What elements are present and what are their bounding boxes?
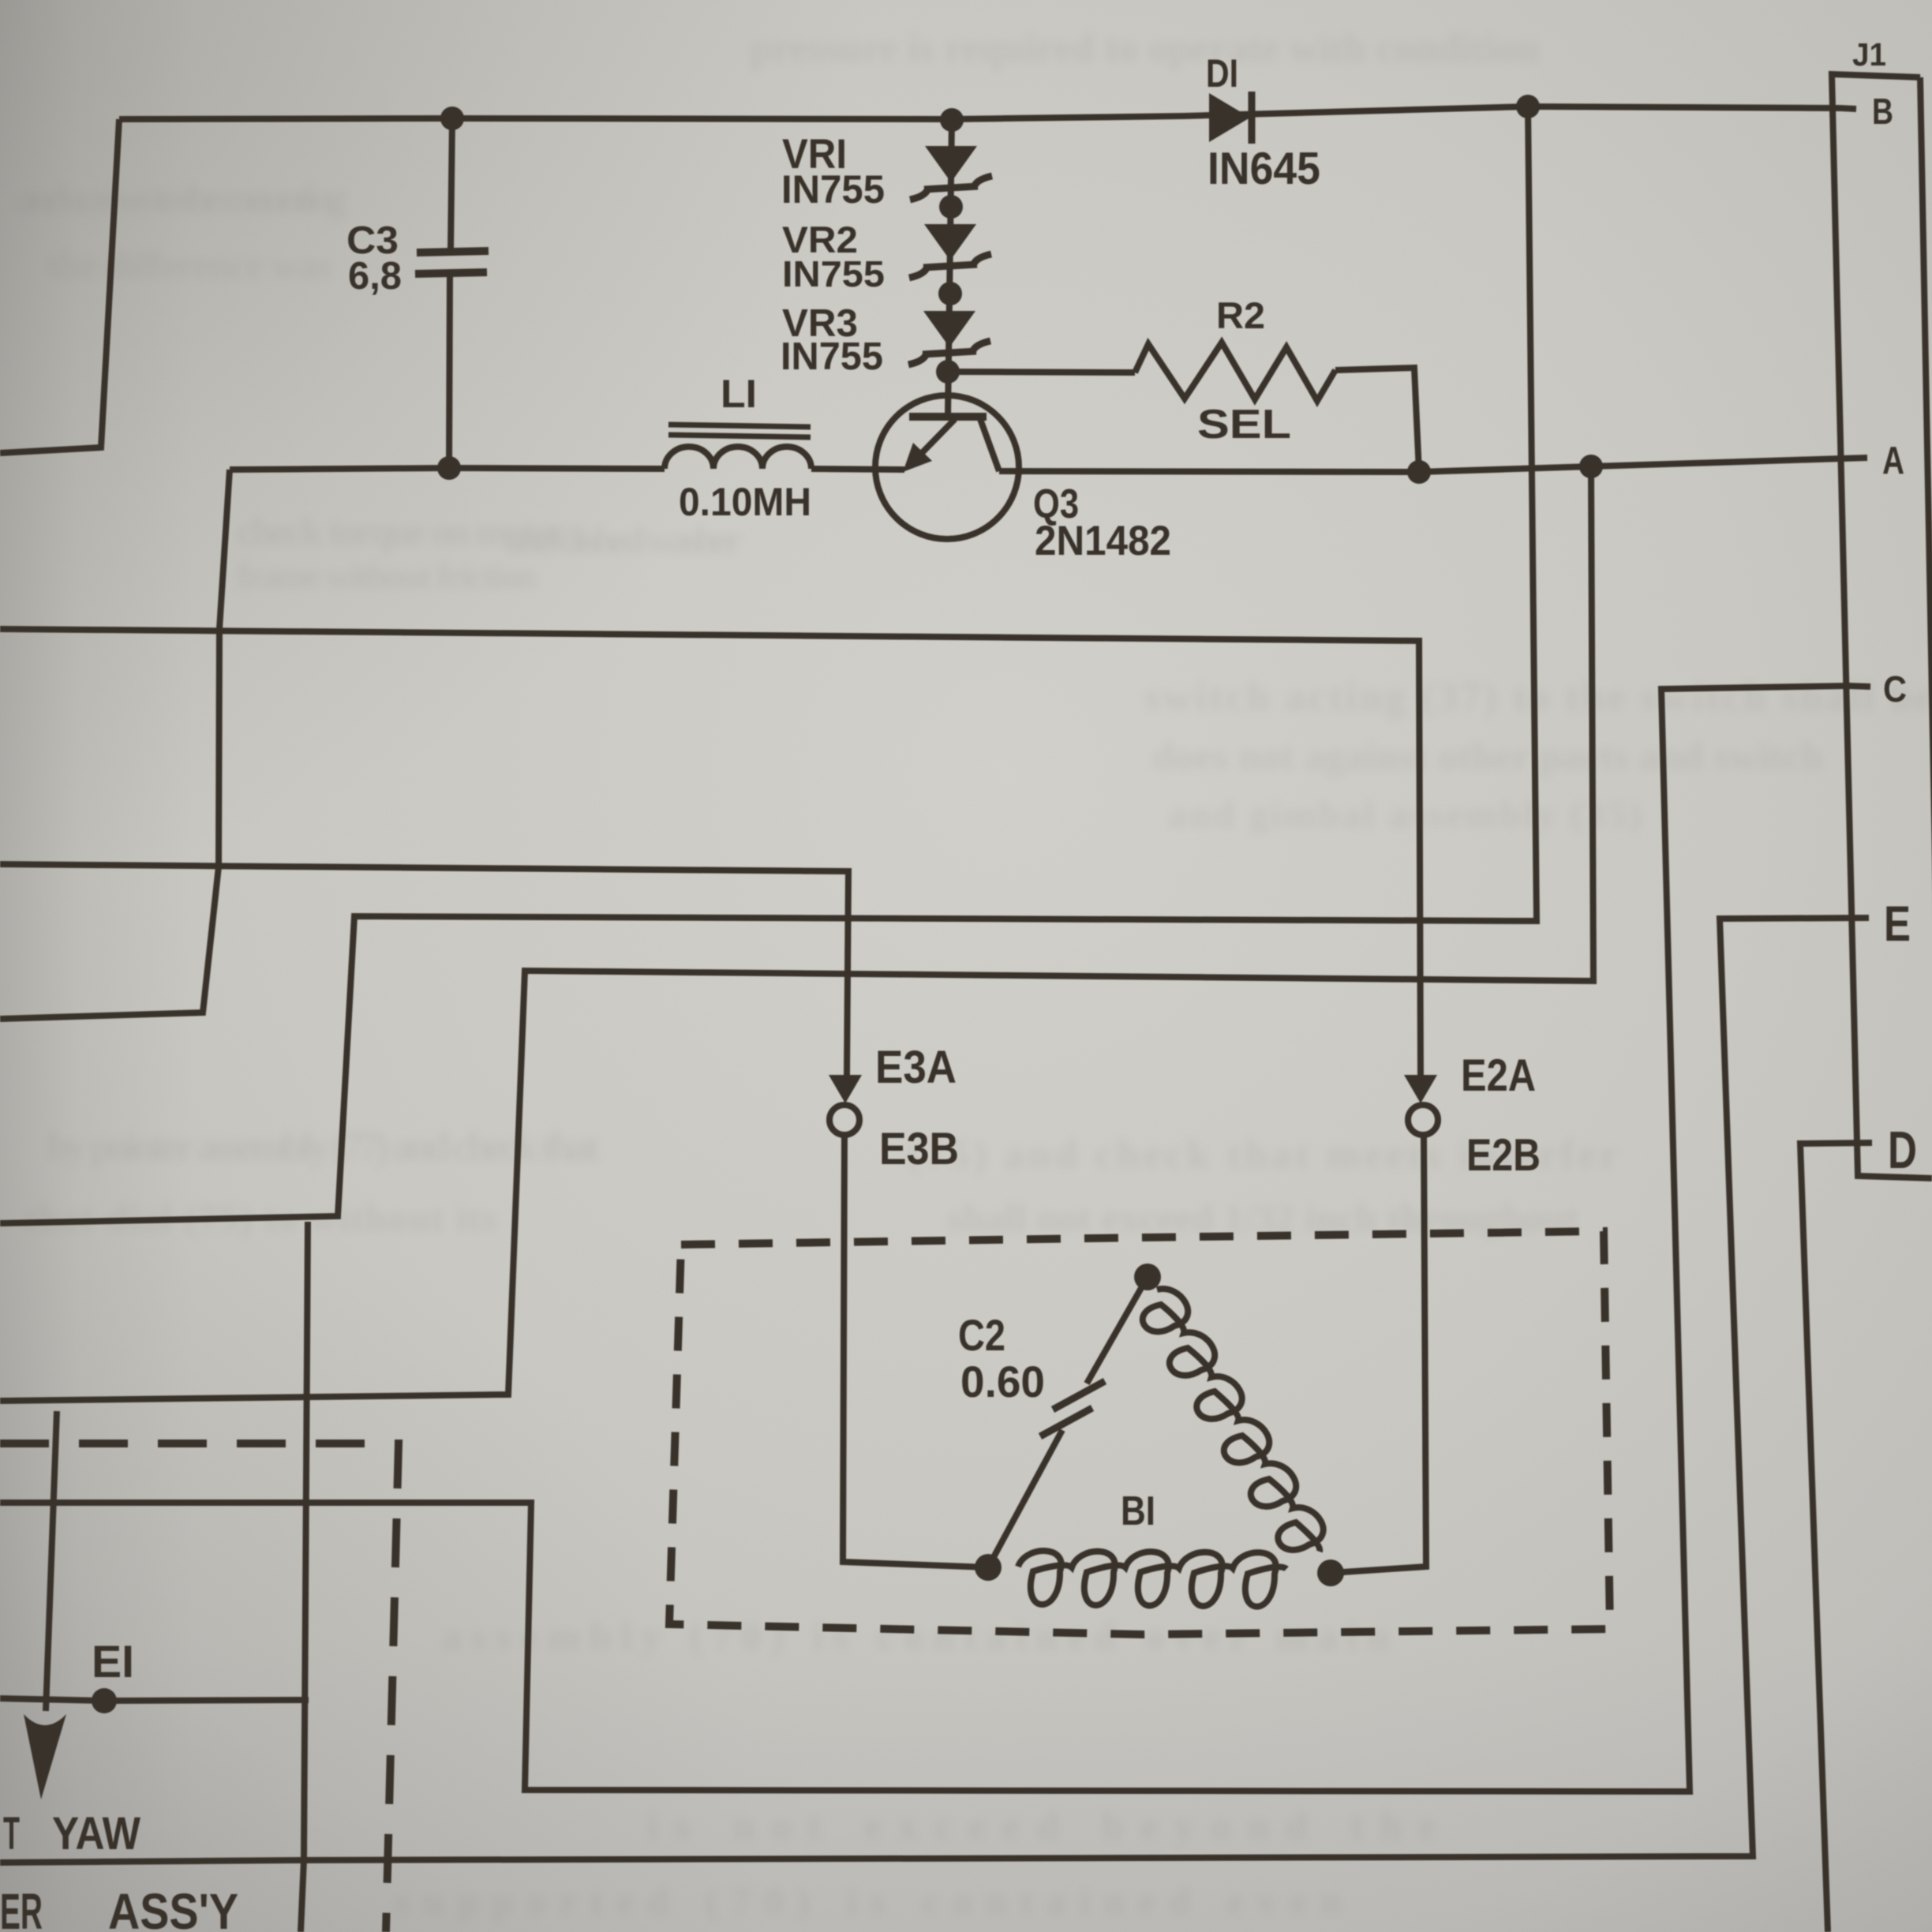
svg-text:DI: DI	[1206, 51, 1238, 95]
svg-text:switch acting (37) to the swit: switch acting (37) to the switch shall b…	[1144, 675, 1932, 720]
svg-text:the difference was: the difference was	[47, 245, 331, 286]
wire E3B to motor B1 lower-left vertex	[843, 1135, 988, 1567]
resistor R2 zigzag	[1135, 343, 1335, 401]
svg-text:E3B: E3B	[879, 1124, 959, 1174]
capacitor C2 lower lead	[988, 1430, 1062, 1567]
wire net A into Q3 emitter	[811, 469, 904, 470]
node motor B1 lower-right vertex	[1317, 1559, 1344, 1586]
wire E2 branch horizontal and drop to contact E2A	[0, 629, 1421, 1075]
svg-text:and gimbal assembly (35): and gimbal assembly (35)	[1168, 794, 1642, 836]
transistor Q3 collector lead	[980, 419, 999, 471]
wire net B left drop to page edge	[0, 119, 119, 453]
zener diode VR3	[923, 311, 975, 347]
motor B1 right winding	[1143, 1289, 1324, 1552]
svg-text:SEL: SEL	[1197, 401, 1291, 447]
svg-text:0.10MH: 0.10MH	[679, 479, 811, 524]
wire net C route: page edge, bottom run, up to J1-C	[0, 686, 1870, 1792]
wire R2 right lead and drop to net A	[1335, 368, 1419, 472]
svg-text:E2A: E2A	[1461, 1050, 1536, 1101]
svg-text:ER: ER	[0, 1883, 43, 1932]
wire net D route: J1-D stub down off page bottom	[1800, 1143, 1872, 1932]
capacitor C3 plates	[417, 251, 489, 253]
svg-text:pressure is required to operat: pressure is required to operate with con…	[750, 26, 1539, 71]
svg-text:ASS'Y: ASS'Y	[108, 1883, 238, 1932]
node B top at zener stack	[940, 108, 964, 132]
svg-text:B: B	[1872, 91, 1893, 132]
node B top at C3	[440, 107, 464, 130]
wire E1 riser vertical	[301, 1222, 308, 1932]
contact E2B circle	[1408, 1105, 1438, 1135]
wire C3 bottom lead	[449, 273, 450, 468]
svg-text:2N1482: 2N1482	[1035, 518, 1171, 564]
wire net A left branch down to page edge	[0, 470, 230, 1019]
svg-text:E2B: E2B	[1466, 1130, 1541, 1181]
svg-text:frame without friction: frame without friction	[237, 556, 537, 596]
wire E2B to motor B1 lower-right vertex	[1331, 1135, 1426, 1573]
svg-text:does not against other parts a: does not against other parts and switch	[1152, 734, 1823, 778]
transistor Q3 circle	[875, 395, 1019, 539]
node zener stack to R2 and Q3 base	[936, 360, 960, 384]
capacitor C2 plates	[1053, 1381, 1105, 1410]
svg-text:0.60: 0.60	[960, 1357, 1045, 1406]
svg-text:C: C	[1883, 668, 1907, 710]
svg-text:E3A: E3A	[875, 1042, 957, 1093]
wire net A main horizontal (left of L1)	[230, 468, 665, 470]
diode D1 anode triangle	[1209, 93, 1250, 142]
contact E3B circle	[829, 1105, 859, 1135]
connector J1 bracket right edge	[1920, 77, 1932, 1026]
svg-text:T: T	[3, 1808, 20, 1859]
inductor L1 winding	[665, 447, 811, 469]
node between VR1 and VR2	[939, 195, 963, 219]
gimbal assembly dashed enclosure (partial)	[0, 1443, 399, 1932]
svg-text:LI: LI	[721, 371, 757, 416]
arrow to yaw follow-up (E1 line)	[46, 1411, 57, 1711]
transistor Q3 emitter lead with arrow	[922, 419, 955, 453]
capacitor C2 upper lead	[1087, 1277, 1148, 1383]
diode D1 cathode bar	[1249, 92, 1256, 144]
inductor L1 core lines	[668, 425, 811, 427]
node motor B1 top vertex	[1134, 1264, 1161, 1290]
motor B1 dashed enclosure	[669, 1231, 1610, 1634]
node between VR2 and VR3	[938, 282, 962, 305]
svg-text:A: A	[1882, 440, 1904, 482]
zener diode VR2	[924, 224, 976, 260]
wire net B top horizontal	[119, 107, 1856, 119]
svg-text:and screws to the mounting: and screws to the mounting	[16, 176, 347, 220]
zener diode VR1	[925, 146, 977, 182]
svg-text:IN645: IN645	[1207, 144, 1320, 194]
svg-text:D: D	[1888, 1121, 1917, 1180]
svg-text:and dished washer: and dished washer	[505, 519, 742, 561]
svg-text:BI: BI	[1121, 1488, 1155, 1533]
node A at C3	[437, 456, 461, 480]
svg-text:IN755: IN755	[782, 253, 885, 294]
wire net B right vertical / E-net horizontal / E-net drop to page edge	[0, 107, 1537, 1223]
motor B1 bottom winding	[1018, 1551, 1286, 1607]
node A at R2 drop	[1407, 460, 1431, 484]
contact E3A arrow	[829, 1075, 862, 1103]
svg-text:YAW: YAW	[52, 1808, 141, 1859]
svg-text:EI: EI	[92, 1637, 134, 1687]
wire E3 branch horizontal and drop to contact E3A	[0, 864, 848, 1075]
wire net A from Q3 collector to J1-A	[999, 458, 1867, 472]
wire C3 top lead	[451, 118, 452, 251]
node E1	[92, 1688, 117, 1713]
svg-text:J1: J1	[1852, 36, 1886, 73]
wire net E route: J1-E stub down to long bottom run	[0, 918, 1869, 1863]
wire R2 left lead from zener node	[948, 372, 1135, 373]
connector J1 bracket outline	[1832, 74, 1932, 1178]
node motor B1 lower-left vertex	[975, 1554, 1002, 1581]
node B top right branch	[1516, 95, 1540, 118]
node A at right branch	[1579, 455, 1603, 478]
svg-text:R2: R2	[1216, 295, 1265, 337]
contact E2A arrow	[1404, 1075, 1437, 1103]
svg-text:E: E	[1884, 897, 1911, 952]
svg-text:C2: C2	[958, 1310, 1005, 1360]
svg-text:IN755: IN755	[781, 335, 883, 378]
svg-text:IN755: IN755	[781, 167, 885, 212]
wire zener stack vertical into Q3 base	[948, 120, 952, 417]
transistor Q3 base bar	[909, 413, 987, 421]
wire net A right drop and return to page edge	[0, 466, 1593, 1401]
wire E1 horizontal through E1 node	[0, 1698, 309, 1701]
svg-text:6,8: 6,8	[348, 255, 402, 298]
